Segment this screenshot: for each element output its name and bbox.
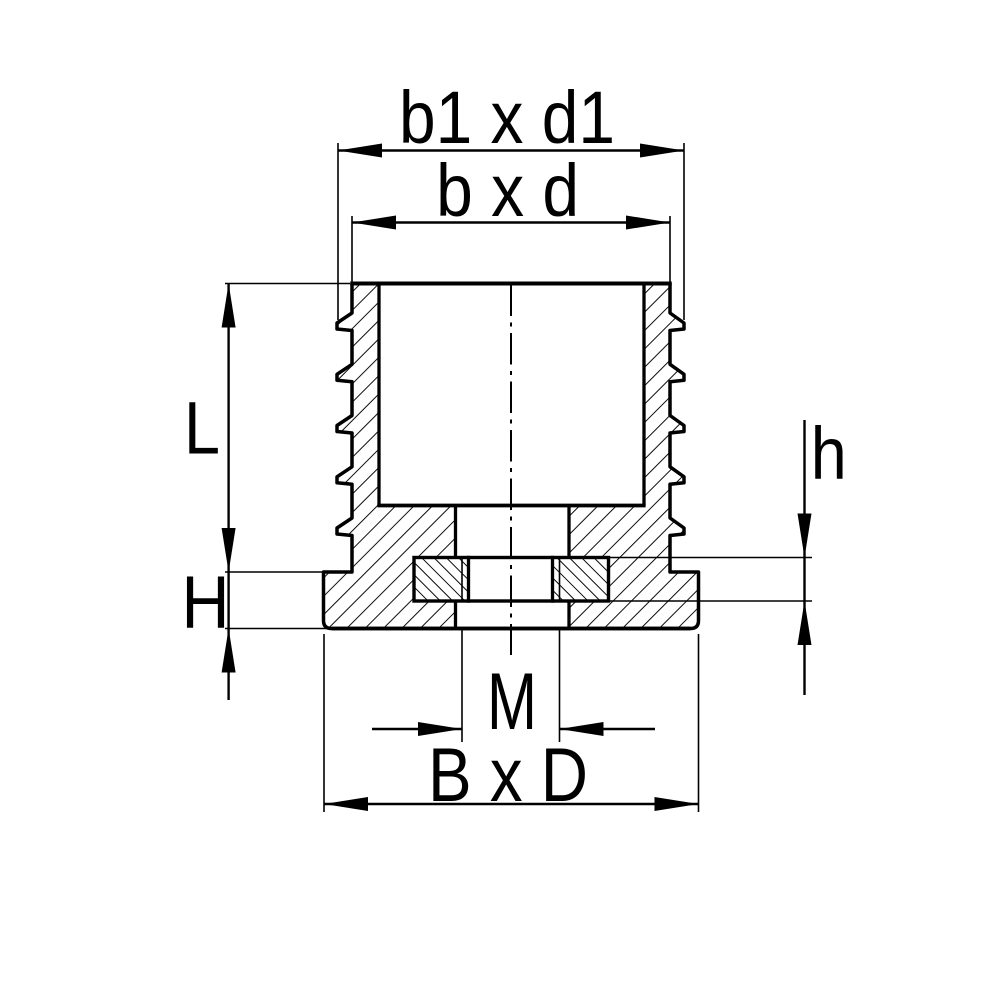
svg-text:L: L — [184, 387, 220, 470]
svg-text:b x d: b x d — [436, 149, 579, 232]
svg-text:H: H — [182, 561, 230, 644]
svg-text:h: h — [811, 412, 847, 495]
svg-text:B x D: B x D — [428, 733, 588, 818]
svg-text:b1 x d1: b1 x d1 — [399, 76, 615, 159]
